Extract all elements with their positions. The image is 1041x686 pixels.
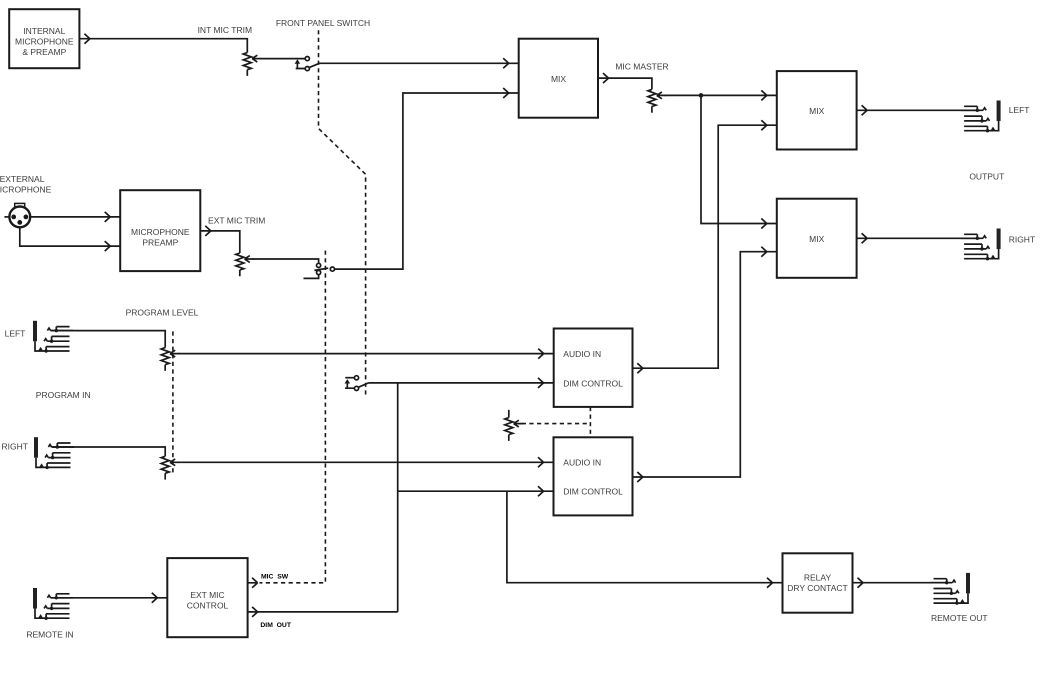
- wire dim bus vertical: [397, 383, 399, 612]
- connector left output jack: [961, 101, 1001, 133]
- dashed control line MIC SW: [260, 251, 326, 583]
- svg-text:RIGHT: RIGHT: [1009, 235, 1035, 245]
- dashed gang line program level: [172, 331, 174, 474]
- svg-text:FRONT PANEL SWITCH: FRONT PANEL SWITCH: [276, 18, 370, 28]
- switch S3 dim control: [345, 376, 369, 391]
- wire relay output to remote out jack with arrow: [853, 578, 951, 588]
- svg-text:MICROPHONE: MICROPHONE: [15, 37, 74, 47]
- wire right jack to program level pot: [52, 447, 166, 456]
- wire S1 to MIX input 1 with arrow: [320, 58, 519, 68]
- svg-text:DIM CONTROL: DIM CONTROL: [563, 487, 623, 497]
- block relay dry contact: [783, 553, 853, 612]
- svg-text:MIX: MIX: [809, 234, 824, 244]
- svg-text:MIX: MIX: [551, 74, 566, 84]
- wire MIX output to MIC MASTER pot with arrow: [598, 73, 652, 89]
- wire pot wiper to switch S1: [260, 58, 305, 60]
- dashed link dim pot to dim controls: [522, 407, 591, 437]
- wire lower audio out to right mix input 2 with arrow: [633, 247, 777, 482]
- wire XLR to preamp input 1 with arrow: [30, 212, 120, 222]
- connector remote out jack: [930, 573, 970, 605]
- block microphone preamp: [120, 190, 200, 271]
- svg-text:& PREAMP: & PREAMP: [22, 47, 66, 57]
- block MIX left output: [777, 71, 857, 149]
- connector J1 XLR external microphone: [4, 203, 30, 227]
- svg-text:OUTPUT: OUTPUT: [969, 171, 1004, 181]
- wire dim bus to dim control 2 with arrow: [398, 486, 554, 496]
- switch S2 external mic mute: [304, 263, 335, 278]
- svg-text:MICROPHONE: MICROPHONE: [131, 227, 190, 237]
- switch S1 internal mic mute: [295, 57, 320, 71]
- svg-text:EXT MIC: EXT MIC: [190, 590, 224, 600]
- svg-text:PREAMP: PREAMP: [142, 238, 178, 248]
- svg-text:EXT MIC TRIM: EXT MIC TRIM: [208, 215, 265, 225]
- wire XLR to preamp input 2 with arrow: [20, 228, 120, 252]
- potentiometer dim level: [508, 410, 510, 418]
- label EXTERNAL MICROPHONE: [0, 174, 52, 194]
- arrow into left mix: [761, 90, 767, 100]
- svg-text:REMOTE IN: REMOTE IN: [26, 630, 73, 640]
- svg-text:INT MIC TRIM: INT MIC TRIM: [198, 25, 252, 35]
- block audio in dim control lower: [554, 437, 633, 515]
- potentiometer program level left: [161, 348, 179, 371]
- wire mic bus down to right mix input 1 with arrow: [701, 95, 777, 228]
- svg-text:LEFT: LEFT: [5, 328, 26, 338]
- svg-text:RELAY: RELAY: [804, 572, 832, 582]
- block audio in dim control upper: [554, 329, 633, 407]
- potentiometer program level right: [161, 456, 179, 479]
- svg-text:RIGHT: RIGHT: [2, 442, 28, 452]
- wire remote in to ext mic control with arrow: [51, 593, 168, 603]
- svg-text:AUDIO IN: AUDIO IN: [563, 349, 601, 359]
- junction node mic bus: [699, 93, 704, 98]
- svg-text:EXTERNAL: EXTERNAL: [0, 174, 45, 184]
- svg-text:DRY CONTACT: DRY CONTACT: [787, 583, 847, 593]
- potentiometer INT MIC TRIM: [243, 53, 261, 76]
- wire right mix output to right jack with arrow: [857, 233, 980, 243]
- svg-text:DIM OUT: DIM OUT: [260, 622, 291, 629]
- svg-text:INTERNAL: INTERNAL: [23, 26, 65, 36]
- wire S3 to dim control 1 with arrow: [369, 378, 554, 388]
- connector right output jack: [961, 229, 1001, 261]
- block MIX mic mixer: [519, 39, 598, 118]
- wire DIM OUT to dim bus with arrow: [248, 607, 398, 617]
- svg-text:MIC MASTER: MIC MASTER: [615, 61, 668, 71]
- svg-text:LEFT: LEFT: [1009, 105, 1030, 115]
- block U1 internal microphone and preamp: [9, 9, 79, 68]
- wire pot wiper to switch S2: [253, 259, 319, 263]
- svg-text:DIM CONTROL: DIM CONTROL: [563, 378, 623, 388]
- svg-text:CONTROL: CONTROL: [187, 601, 229, 611]
- wire right pot wiper to audio in 2 with arrow: [178, 457, 553, 467]
- svg-text:PROGRAM LEVEL: PROGRAM LEVEL: [126, 307, 199, 317]
- connector remote in jack: [33, 588, 73, 620]
- wire left jack to program level pot: [51, 331, 166, 348]
- connector left program input jack: [33, 321, 73, 353]
- svg-text:MICROPHONE: MICROPHONE: [0, 184, 52, 194]
- wire MIC MASTER wiper to mix buses: [665, 94, 777, 96]
- potentiometer EXT MIC TRIM: [236, 253, 254, 276]
- wire U1 output to INT MIC TRIM pot with arrow: [79, 34, 247, 53]
- block ext mic control: [167, 558, 247, 637]
- wire upper audio out to left mix input 2 with arrow: [633, 120, 777, 373]
- connector right program input jack: [34, 437, 74, 469]
- block MIX right output: [777, 199, 857, 278]
- wire left pot wiper to audio in 1 with arrow: [178, 349, 554, 359]
- wire left mix output to left jack with arrow: [857, 105, 980, 115]
- svg-text:PROGRAM IN: PROGRAM IN: [36, 390, 91, 400]
- svg-text:AUDIO IN: AUDIO IN: [563, 458, 601, 468]
- wire preamp output to EXT MIC TRIM pot with arrow: [200, 226, 240, 253]
- svg-text:MIC SW: MIC SW: [261, 573, 289, 580]
- potentiometer MIC MASTER: [648, 89, 666, 112]
- wire S2 to MIX input 2 with arrow: [335, 88, 519, 269]
- svg-text:MIX: MIX: [809, 106, 824, 116]
- arrow MIC SW output: [248, 578, 258, 588]
- svg-text:REMOTE OUT: REMOTE OUT: [931, 613, 988, 623]
- wire dim bus to relay with arrow: [507, 491, 783, 588]
- dashed control line front panel switch: [319, 30, 366, 398]
